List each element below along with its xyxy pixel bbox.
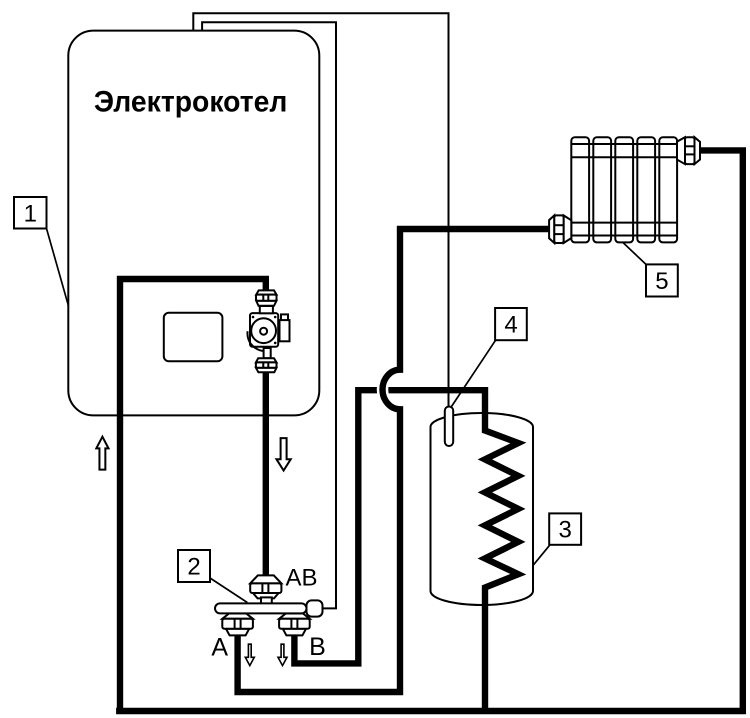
svg-text:2: 2: [187, 554, 200, 581]
svg-text:B: B: [309, 633, 326, 661]
svg-text:1: 1: [24, 201, 37, 228]
svg-text:3: 3: [559, 517, 572, 544]
svg-text:4: 4: [504, 312, 517, 339]
svg-text:A: A: [211, 634, 228, 662]
svg-text:Электрокотел: Электрокотел: [94, 86, 288, 119]
svg-text:AB: AB: [286, 565, 318, 592]
svg-text:5: 5: [655, 268, 668, 295]
